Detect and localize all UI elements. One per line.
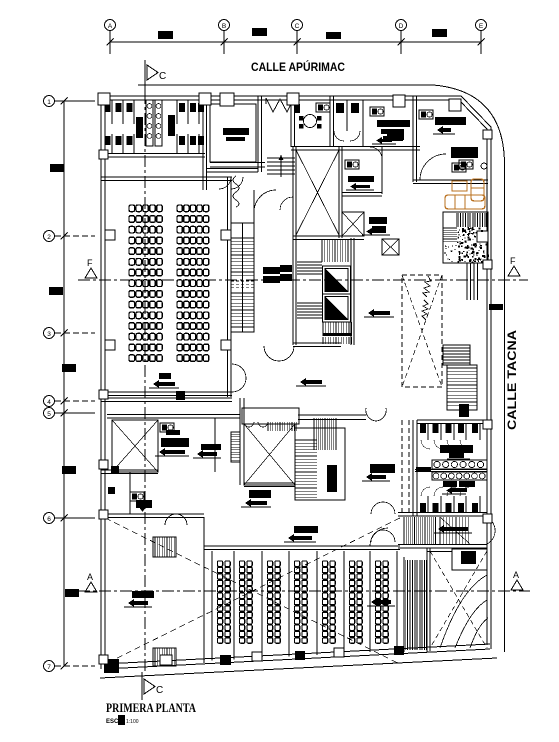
elevator cab 1 <box>323 266 351 294</box>
pc desk above sofa <box>452 163 466 172</box>
center stair vertical hatch <box>313 418 315 450</box>
wall x215 <box>214 418 216 472</box>
corridor stair treads <box>439 517 441 544</box>
svg-text:6: 6 <box>47 516 51 523</box>
tab squares right wall <box>483 130 492 139</box>
auditorium top wall <box>101 176 232 178</box>
toilet fixtures bottom row <box>420 503 426 512</box>
arrow mid left hall <box>305 380 322 384</box>
bottom wall columns <box>104 659 119 673</box>
elevator lobby upper hatch <box>321 240 323 262</box>
stage room tab <box>220 93 234 106</box>
toilets block walls <box>412 420 414 516</box>
large X room walls <box>292 147 294 238</box>
corner office desk <box>451 147 478 158</box>
double door arcs on wall y344 <box>264 346 294 361</box>
counter black bottom <box>443 481 457 487</box>
spring wavy wall <box>233 176 239 207</box>
large X room diagonals <box>296 150 339 235</box>
office D-E desks <box>370 107 384 116</box>
svg-text:A: A <box>513 570 519 580</box>
corridor stair walls <box>398 512 487 514</box>
svg-text:E: E <box>479 23 484 30</box>
stipple stones <box>477 231 488 242</box>
auditorium stage blob <box>159 373 171 379</box>
center stair horizontal hatch <box>295 439 317 441</box>
corridor wall under auditorium <box>101 397 232 399</box>
entrance steps <box>267 157 295 159</box>
svg-text:C: C <box>156 685 163 696</box>
auditorium bottom wall <box>101 391 232 393</box>
double rails right <box>466 263 468 300</box>
left dimension text blobs <box>50 164 64 172</box>
acoustic curves <box>455 600 487 648</box>
door arc corridor right <box>477 516 495 544</box>
corridor stair vertical hatch <box>403 517 405 544</box>
projection booth box <box>452 549 487 570</box>
door arc corner office <box>420 154 446 180</box>
divider wall middle <box>415 469 487 471</box>
sink strips with circles <box>146 100 153 146</box>
stair enclosure center walls <box>292 238 294 345</box>
room below X-right desk <box>244 482 295 484</box>
wall y238 under X room <box>293 235 364 237</box>
hall wall x204 <box>203 517 205 663</box>
top dimension text blobs <box>158 31 173 39</box>
centerline horizontal F <box>78 279 528 281</box>
horizontal tread strip <box>443 227 457 229</box>
auditorium right wall <box>227 177 229 397</box>
centerline vertical C <box>144 92 146 672</box>
round table room <box>304 115 317 128</box>
wall x205 vertical <box>202 96 204 190</box>
center stair block walls <box>295 428 345 500</box>
ledge lines to door <box>298 414 366 416</box>
projection room dashed X <box>430 551 487 648</box>
stage room table <box>223 128 249 135</box>
svg-text:5: 5 <box>47 411 51 418</box>
center stair dim blobs <box>280 265 292 272</box>
stair-well frame top right <box>443 212 488 263</box>
hall dashed X left <box>105 518 400 664</box>
svg-text:2: 2 <box>47 234 51 241</box>
corridor stair arrow <box>443 527 468 531</box>
toilet fixtures left group <box>105 103 111 112</box>
toilet block left dividers <box>111 100 113 124</box>
dotted strip <box>448 247 449 248</box>
counter chairs arcs <box>244 422 268 427</box>
left small rooms walls <box>101 469 158 471</box>
double door zigzag center <box>371 502 395 514</box>
stair right 1 <box>443 345 470 365</box>
hall small stair 2 <box>153 648 176 666</box>
urinal divider black bar right <box>168 115 175 136</box>
stall door arcs top <box>421 440 430 449</box>
office E desks <box>419 110 433 119</box>
stage blob lower hall <box>294 526 318 533</box>
black poche above toilets <box>459 404 469 417</box>
center stair side treads upper <box>297 261 322 263</box>
wall under toilets y157 <box>101 153 205 155</box>
shrub zigzag 1 <box>423 276 431 297</box>
office 2 desks <box>160 423 174 432</box>
dashed corridor lines <box>401 420 403 514</box>
building outer wall <box>101 96 491 649</box>
grid bubbles 1-7 <box>44 96 55 107</box>
hall black bar <box>132 591 154 598</box>
arrow mid right <box>373 311 390 315</box>
toilet block right dividers <box>176 100 178 124</box>
wall x415 vertical <box>412 96 414 182</box>
toilet pair cells <box>346 100 348 131</box>
street dimension blob right <box>489 304 503 310</box>
svg-text:C: C <box>295 23 300 30</box>
svg-text:1:100: 1:100 <box>126 719 139 725</box>
X-box elevator A <box>342 212 364 236</box>
coffee table orange <box>452 181 467 191</box>
sofa L-shape orange <box>445 195 485 209</box>
toilet fixtures right group <box>179 103 185 112</box>
entrance door arcs <box>266 98 294 112</box>
top dimension line <box>110 41 481 43</box>
section marker C bottom <box>141 672 143 700</box>
stair dimension blobs <box>263 267 280 274</box>
hall small stair 1 <box>153 537 176 557</box>
X-box elevator B <box>382 239 399 255</box>
double door zigzag lower left <box>165 514 187 525</box>
right hatch band lower <box>403 560 405 650</box>
X room right with header <box>242 408 299 424</box>
urinal divider black bar left <box>136 117 143 138</box>
wall y146 horizontal corridor top <box>291 146 420 148</box>
elevator lower hatch <box>322 322 324 336</box>
sink counter row 2 <box>432 472 487 480</box>
office band top wall <box>107 414 240 416</box>
door arc center left <box>280 197 293 210</box>
small office next to X room <box>381 147 383 194</box>
shrub zigzag 2 <box>422 300 428 320</box>
section marker C top <box>144 60 146 92</box>
left dimension line <box>63 101 65 666</box>
svg-text:A: A <box>87 572 93 582</box>
svg-text:CALLE APÚRIMAC: CALLE APÚRIMAC <box>251 59 345 74</box>
lower auditorium top wall <box>204 545 400 547</box>
office desks right of X room <box>369 217 387 224</box>
wall pilaster black <box>176 391 185 400</box>
svg-text:F: F <box>87 258 93 268</box>
svg-text:3: 3 <box>47 331 51 338</box>
svg-text:PRIMERA PLANTA: PRIMERA PLANTA <box>106 701 196 715</box>
counter black top <box>440 445 473 453</box>
svg-text:4: 4 <box>47 399 51 406</box>
wall x240-244 vertical <box>239 398 241 485</box>
door arc lower auditorium top <box>370 528 388 546</box>
stair hall right of auditorium <box>231 223 254 332</box>
wall x292 vertical <box>290 96 292 147</box>
toilet stall dividers bottom <box>427 496 429 512</box>
wall x330 vertical <box>329 96 331 147</box>
tab squares left wall <box>99 150 108 159</box>
svg-text:7: 7 <box>47 664 51 671</box>
X office room 1 <box>112 420 158 472</box>
wall y182 right rooms <box>413 179 488 181</box>
door zigzag auditorium top right <box>219 177 243 189</box>
grid bubbles A-E <box>105 20 116 31</box>
stage room outline <box>257 96 259 172</box>
sink counter row 1 <box>432 460 487 469</box>
dashed landscaped area <box>402 275 442 387</box>
svg-text:ESC: ESC <box>106 719 119 725</box>
double door arcs on wall x232 <box>232 364 246 392</box>
seat rails and seats lower auditorium <box>211 551 213 660</box>
vertical hatch strip <box>456 213 458 227</box>
toilet fixtures small rooms <box>111 466 119 474</box>
double door zigzag y410 <box>366 408 386 421</box>
projection room walls <box>426 548 428 651</box>
office 3 desk <box>201 444 221 450</box>
hall top wall y514 <box>101 513 204 515</box>
ladder stair small <box>231 432 240 462</box>
svg-text:D: D <box>399 23 404 30</box>
svg-text:CALLE TACNA: CALLE TACNA <box>505 330 519 430</box>
street corner curve <box>433 85 505 165</box>
auditorium seats <box>129 205 135 212</box>
elevator cab 2 <box>323 294 351 322</box>
building bottom wall <box>104 649 490 669</box>
sidewalk line bottom <box>100 658 497 678</box>
arrow in seats <box>376 600 391 604</box>
vertical hatch strip under counter <box>267 422 269 431</box>
door arc office <box>370 147 382 159</box>
auditorium pilasters <box>105 230 115 240</box>
svg-text:A: A <box>108 23 113 30</box>
perimeter tabs top wall <box>98 93 110 105</box>
center stair side treads lower <box>297 302 322 304</box>
svg-text:B: B <box>222 23 226 30</box>
stair right 2 <box>447 365 477 410</box>
center stair black wall <box>327 465 337 492</box>
stall door arcs bottom <box>421 487 430 496</box>
toilet stall dividers top <box>427 424 429 440</box>
svg-text:F: F <box>510 256 516 266</box>
street line Calle Apurimac <box>138 84 433 86</box>
svg-text:1: 1 <box>47 99 51 106</box>
door arc stair hall top <box>254 190 276 212</box>
desk right of stairs <box>370 464 395 473</box>
svg-text:C: C <box>159 71 166 82</box>
centerline horizontal A <box>78 590 530 592</box>
street line Calle Tacna <box>504 165 506 652</box>
toilet fixtures top row <box>420 424 426 433</box>
